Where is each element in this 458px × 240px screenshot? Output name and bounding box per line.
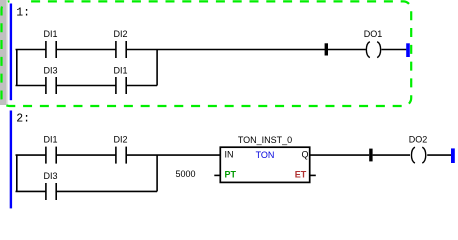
svg-text:TON: TON — [256, 150, 275, 160]
svg-text:DO1: DO1 — [364, 29, 383, 39]
svg-text:DI3: DI3 — [43, 65, 57, 75]
svg-text:1:: 1: — [16, 6, 30, 19]
svg-text:DI3: DI3 — [43, 171, 57, 181]
svg-text:DI1: DI1 — [43, 29, 57, 39]
svg-text:DI1: DI1 — [113, 65, 127, 75]
svg-text:5000: 5000 — [176, 169, 196, 179]
svg-text:2:: 2: — [16, 113, 30, 126]
svg-text:DO2: DO2 — [409, 135, 428, 145]
svg-text:TON_INST_0: TON_INST_0 — [238, 135, 292, 145]
svg-text:DI1: DI1 — [43, 135, 57, 145]
svg-text:DI2: DI2 — [113, 135, 127, 145]
svg-text:DI2: DI2 — [113, 29, 127, 39]
svg-text:IN: IN — [225, 149, 234, 159]
svg-text:ET: ET — [295, 169, 307, 179]
svg-text:Q: Q — [301, 149, 308, 159]
svg-text:PT: PT — [225, 169, 237, 179]
